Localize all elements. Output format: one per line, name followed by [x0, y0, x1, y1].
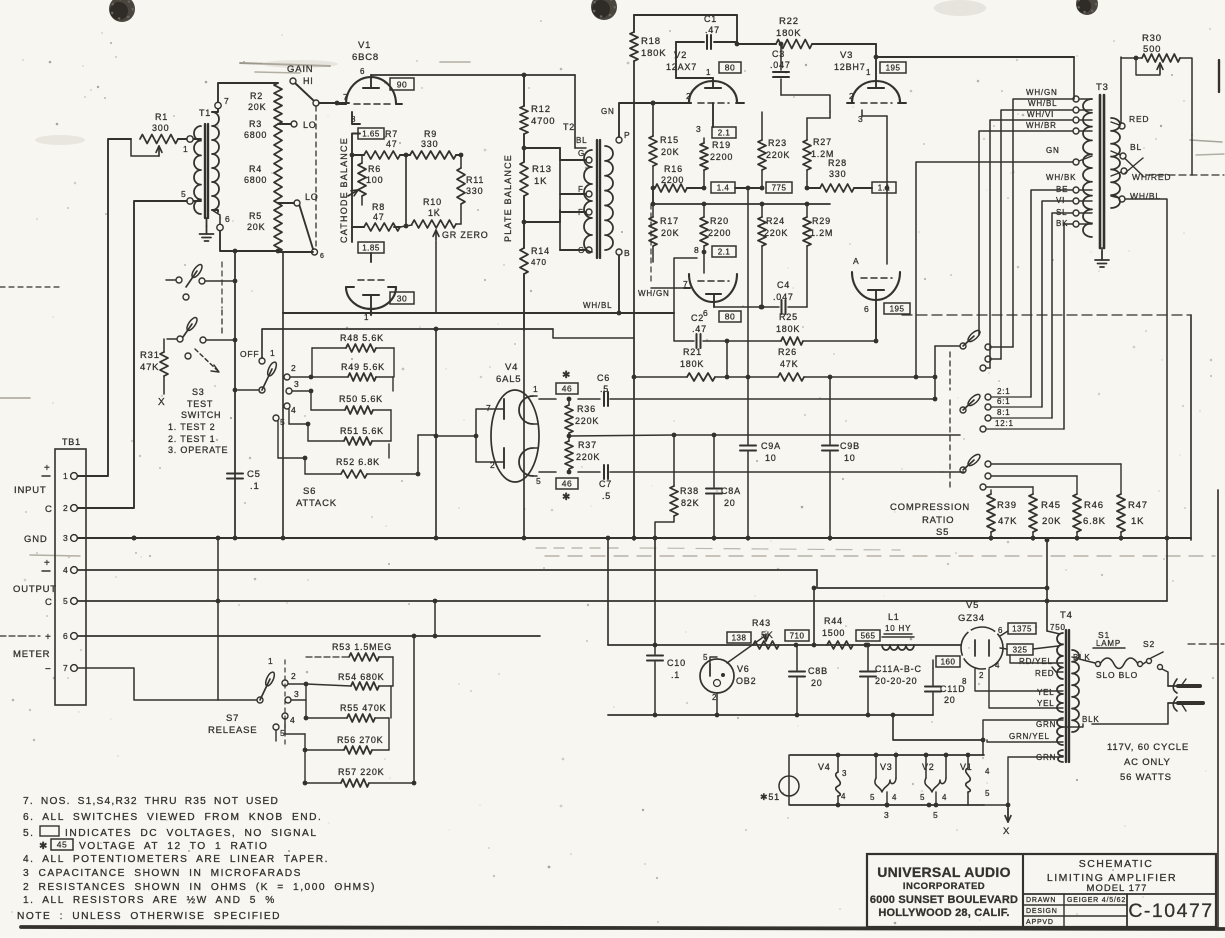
wire [916, 162, 1073, 377]
svg-text:C5: C5 [247, 469, 261, 480]
capacitor C4 .047 [714, 280, 807, 314]
wire [456, 153, 463, 158]
svg-text:R20: R20 [710, 216, 729, 226]
svg-text:1: 1 [63, 471, 69, 481]
svg-text:R45: R45 [1041, 500, 1061, 511]
wire [233, 251, 238, 538]
wire (heater rail bottom) [790, 803, 984, 808]
wire [539, 397, 600, 402]
svg-text:6BC8: 6BC8 [352, 52, 379, 63]
svg-text:R23: R23 [768, 138, 787, 148]
label COMPRESSION RATIO S5 [890, 502, 970, 538]
note text [17, 796, 376, 922]
svg-text:3. OPERATE: 3. OPERATE [168, 445, 228, 455]
svg-text:3: 3 [294, 689, 300, 699]
switch S3 [167, 310, 235, 372]
svg-text:7. NOS. S1,S4,R32 THRU R35 NO: 7. NOS. S1,S4,R32 THRU R35 NOT USED [23, 796, 279, 807]
wire [634, 14, 737, 16]
svg-text:100: 100 [366, 175, 383, 185]
wire [979, 131, 1073, 335]
svg-text:V3: V3 [840, 50, 853, 61]
tube V3 heater [870, 755, 897, 820]
wire [619, 101, 691, 137]
svg-text:5: 5 [536, 476, 542, 486]
capacitor C10 .1 [647, 645, 686, 715]
resistor R7 47 [360, 129, 400, 159]
svg-text:1K: 1K [1131, 516, 1144, 527]
svg-text:R26: R26 [778, 347, 797, 357]
label WH/GN [638, 204, 690, 298]
capacitor C8A 20 [706, 435, 741, 540]
svg-text:V1: V1 [358, 40, 371, 51]
svg-text:1: 1 [270, 348, 276, 358]
svg-text:2:1: 2:1 [997, 387, 1011, 396]
svg-text:RED: RED [1129, 114, 1149, 124]
svg-text:2: 2 [291, 363, 297, 373]
svg-text:PLATE BALANCE: PLATE BALANCE [503, 154, 513, 242]
svg-text:R47: R47 [1128, 500, 1148, 511]
wire [412, 634, 417, 783]
wire [523, 274, 525, 330]
wire [874, 55, 1074, 60]
svg-text:47: 47 [386, 139, 398, 149]
svg-text:4: 4 [995, 661, 1000, 670]
svg-text:20K: 20K [247, 222, 265, 232]
wire [282, 252, 284, 313]
dc voltage 80 (lower) [719, 311, 741, 322]
title block [867, 854, 1216, 927]
svg-text:180K: 180K [776, 28, 801, 39]
wire [77, 538, 1167, 603]
resistor R38 82K [655, 435, 699, 540]
svg-text:8: 8 [694, 245, 700, 255]
resistor R24 220K [758, 202, 788, 310]
svg-text:1500: 1500 [822, 628, 845, 638]
wire [524, 148, 560, 160]
svg-text:MODEL 177: MODEL 177 [1087, 883, 1148, 894]
svg-text:4: 4 [892, 793, 897, 802]
switch S6 [238, 348, 300, 427]
tube V1 heater [960, 755, 990, 805]
svg-text:12BH7: 12BH7 [834, 62, 866, 72]
wire [218, 83, 278, 102]
svg-text:C1: C1 [704, 14, 717, 24]
capacitor C3 .047 [770, 42, 830, 112]
svg-text:HI: HI [303, 76, 314, 86]
dc voltage 1.65 [358, 128, 384, 139]
svg-text:2 RESISTANCES SHOWN IN OHMS (K: 2 RESISTANCES SHOWN IN OHMS (K = 1,000 O… [23, 882, 376, 893]
svg-text:3: 3 [884, 810, 890, 820]
wire [933, 346, 938, 401]
wire [1052, 213, 1073, 418]
svg-text:C7: C7 [599, 479, 612, 489]
capacitor C8B 20 [789, 645, 828, 715]
svg-text:1: 1 [268, 656, 274, 666]
wire [654, 540, 656, 645]
plug P1 [1168, 679, 1203, 711]
resistor R36 220K [565, 399, 599, 436]
node T3 secondary taps [1026, 88, 1092, 134]
label YEL YEL [975, 669, 1063, 708]
svg-text:45: 45 [57, 840, 67, 850]
svg-text:OB2: OB2 [736, 676, 756, 686]
node 5 [181, 189, 193, 204]
wire [178, 138, 187, 140]
svg-text:LO: LO [303, 120, 317, 130]
wire [394, 155, 406, 227]
resistor R53 1.5MEG [306, 642, 393, 661]
tube V1 6BC8 (section 2) [346, 280, 396, 322]
svg-text:.1: .1 [671, 670, 680, 680]
svg-text:20K: 20K [1042, 516, 1061, 527]
tube V5 GZ34 [958, 600, 1008, 686]
svg-text:1. ALL RESISTORS ARE ½W AND 5: 1. ALL RESISTORS ARE ½W AND 5 % [23, 895, 276, 906]
resistor R46 6.8K [1073, 494, 1106, 540]
svg-text:S5: S5 [936, 527, 949, 538]
svg-text:20K: 20K [661, 228, 679, 238]
wire [220, 231, 280, 253]
svg-text:5.: 5. [23, 828, 35, 839]
dc voltage 90 [390, 78, 414, 90]
resistor R17 20K [649, 202, 679, 262]
resistor R3 6800 [244, 119, 282, 208]
wire [672, 433, 960, 438]
resistor R56 270K [285, 718, 389, 754]
svg-text:ATTACK: ATTACK [296, 498, 337, 509]
resistor R27 1.2M [803, 112, 834, 182]
wire (B+ rail) [608, 643, 961, 648]
svg-text:46: 46 [562, 384, 572, 394]
svg-text:47K: 47K [998, 516, 1017, 527]
svg-text:.47: .47 [692, 324, 707, 334]
capacitor C1 .47 [676, 14, 737, 49]
svg-text:R29: R29 [812, 216, 831, 226]
dc voltage 195 (lower) [884, 303, 910, 314]
node WH/BL tap [1111, 191, 1161, 202]
wire [523, 330, 525, 538]
svg-text:47K: 47K [140, 362, 159, 373]
svg-text:1375: 1375 [1012, 625, 1032, 634]
svg-text:4: 4 [63, 565, 69, 575]
ground [200, 218, 214, 241]
wire [77, 139, 131, 476]
svg-text:5: 5 [703, 653, 708, 662]
svg-text:5: 5 [920, 793, 925, 802]
svg-text:1. TEST 2: 1. TEST 2 [168, 422, 215, 432]
svg-text:3 CAPACITANCE SHOWN IN MICROFA: 3 CAPACITANCE SHOWN IN MICROFARADS [23, 868, 302, 879]
svg-text:C8B: C8B [808, 666, 828, 676]
capacitor C2 .47 [674, 258, 781, 379]
transformer T3 [1083, 82, 1120, 248]
label S7 RELEASE [208, 713, 257, 736]
svg-text:775: 775 [772, 184, 787, 193]
svg-text:1.85: 1.85 [362, 244, 380, 253]
dc voltage 2.1 (lower) [694, 245, 736, 257]
label BLK [1073, 653, 1091, 662]
resistor R12 4700 [520, 75, 555, 162]
svg-text:10 HY: 10 HY [885, 624, 911, 633]
svg-text:GN: GN [1046, 146, 1060, 155]
svg-text:R17: R17 [660, 216, 679, 226]
node 1 [183, 136, 193, 154]
resistor R18 180K [630, 15, 666, 61]
svg-text:C: C [45, 597, 53, 608]
tube V6 OB2 [700, 638, 762, 715]
svg-text:300: 300 [152, 123, 169, 133]
svg-text:2. TEST 1: 2. TEST 1 [168, 434, 215, 444]
svg-text:R28: R28 [828, 158, 847, 168]
wire [1064, 224, 1073, 429]
label GN [601, 107, 615, 116]
wire [278, 251, 313, 253]
resistor R28 330 [805, 158, 872, 192]
svg-text:TB1: TB1 [62, 437, 81, 447]
transformer T1 [193, 108, 219, 218]
svg-text:R30: R30 [1142, 33, 1162, 44]
svg-text:7: 7 [343, 92, 349, 102]
svg-text:R51 5.6K: R51 5.6K [340, 426, 384, 436]
svg-text:R7: R7 [385, 129, 398, 139]
ground [1095, 248, 1109, 267]
svg-text:117V, 60 CYCLE: 117V, 60 CYCLE [1107, 742, 1189, 753]
resistor R51 5.6K [289, 409, 391, 445]
wire [77, 536, 257, 700]
wire [350, 153, 358, 227]
resistor R2 20K [248, 83, 282, 124]
svg-text:R3: R3 [249, 119, 262, 129]
svg-text:20-20-20: 20-20-20 [875, 676, 917, 686]
svg-text:R53 1.5MEG: R53 1.5MEG [332, 642, 392, 652]
resistor R19 2200 [700, 138, 733, 188]
svg-text:20: 20 [811, 678, 823, 688]
svg-text:R37: R37 [578, 440, 597, 450]
svg-text:6: 6 [360, 67, 365, 76]
wire [812, 586, 817, 645]
svg-text:WH/RED: WH/RED [1132, 172, 1171, 182]
svg-text:5: 5 [985, 789, 990, 798]
svg-text:YEL: YEL [1037, 699, 1055, 708]
potentiometer R10 1K [400, 197, 456, 240]
resistor R55 470K [291, 684, 391, 722]
capacitor C5 .1 [227, 469, 261, 492]
svg-text:3: 3 [842, 769, 847, 778]
capacitor C9A 10 [740, 186, 781, 540]
label CATHODE BALANCE [339, 137, 349, 243]
svg-text:R15: R15 [660, 135, 679, 145]
dc voltage 2.1 [712, 127, 736, 138]
svg-text:6: 6 [225, 214, 231, 224]
wire [371, 73, 575, 78]
wire (heater rail top) [790, 753, 984, 758]
svg-text:RD/YEL: RD/YEL [1019, 657, 1053, 666]
svg-text:TEST: TEST [187, 399, 213, 409]
svg-text:R11: R11 [466, 175, 484, 185]
resistor R48 5.6K [312, 333, 394, 352]
svg-text:195: 195 [886, 64, 901, 73]
wire [262, 329, 634, 358]
svg-text:R14: R14 [531, 246, 550, 256]
wire [653, 188, 830, 204]
dc voltage 80 [719, 62, 741, 73]
svg-text:20K: 20K [661, 147, 679, 157]
svg-text:R22: R22 [779, 16, 799, 27]
resistor R45 20K [1029, 494, 1061, 540]
svg-text:R48 5.6K: R48 5.6K [340, 333, 384, 343]
svg-text:WH/BL: WH/BL [583, 301, 612, 310]
wire [1125, 158, 1144, 176]
svg-text:S6: S6 [303, 486, 316, 497]
wire [981, 738, 1011, 808]
wire (gnd bus) [77, 536, 1191, 541]
svg-text:A: A [853, 256, 859, 266]
svg-text:✱: ✱ [562, 370, 571, 381]
node T3 primary lower taps [1056, 185, 1092, 228]
inductor L1 10 HY [882, 612, 914, 650]
transformer T4 [1057, 630, 1079, 762]
svg-text:R8: R8 [372, 202, 385, 212]
svg-text:GAIN: GAIN [287, 64, 313, 75]
resistor R25 180K [776, 312, 878, 345]
svg-text:6. ALL SWITCHES VIEWED FROM KN: 6. ALL SWITCHES VIEWED FROM KNOB END. [23, 812, 322, 823]
svg-text:2: 2 [686, 91, 692, 101]
svg-text:12:1: 12:1 [995, 419, 1014, 428]
svg-text:R56 270K: R56 270K [337, 735, 383, 745]
svg-text:195: 195 [890, 305, 905, 314]
tube V2 12AX7 (section 1) [666, 50, 744, 134]
svg-text:80: 80 [725, 63, 735, 73]
svg-text:R6: R6 [368, 164, 381, 174]
switch S7 [257, 656, 300, 745]
svg-text:3: 3 [294, 379, 300, 389]
label WH/BL [583, 301, 612, 310]
fuse SLO BLO [1072, 657, 1143, 680]
svg-text:SCHEMATIC: SCHEMATIC [1079, 858, 1154, 870]
svg-text:6800: 6800 [244, 175, 267, 185]
label GRN GRN/YEL [983, 720, 1063, 742]
svg-text:5: 5 [63, 596, 69, 606]
wire [1146, 135, 1224, 175]
svg-text:90: 90 [397, 80, 407, 90]
wire [351, 227, 353, 242]
svg-text:325: 325 [1013, 646, 1028, 655]
svg-text:1: 1 [706, 68, 711, 77]
wire [1120, 57, 1122, 124]
wire [77, 201, 187, 508]
svg-text:R2: R2 [250, 91, 263, 101]
wire [1031, 190, 1073, 397]
svg-text:R9: R9 [424, 129, 437, 139]
svg-text:6800: 6800 [244, 130, 267, 140]
svg-text:RED: RED [1035, 669, 1054, 678]
svg-text:+: + [44, 463, 51, 474]
wire [1073, 57, 1075, 99]
svg-text:1: 1 [866, 68, 871, 77]
svg-text:R10: R10 [423, 197, 442, 207]
svg-text:✱: ✱ [562, 492, 571, 503]
svg-text:1.2M: 1.2M [810, 228, 833, 238]
resistor R21 180K [632, 347, 748, 381]
dc voltage 46 (pin1) [556, 370, 578, 394]
svg-text:T4: T4 [1060, 610, 1073, 621]
svg-text:.5: .5 [602, 491, 611, 501]
resistor R44 1500 [822, 616, 853, 649]
label PLATE BALANCE [503, 154, 513, 242]
resistor R16 2200 [651, 164, 707, 192]
lamp *51 [760, 755, 799, 805]
potentiometer R30 500 [1121, 33, 1192, 135]
wire (psu common) [608, 713, 983, 740]
svg-text:UNIVERSAL AUDIO: UNIVERSAL AUDIO [877, 864, 1011, 880]
svg-text:C8A: C8A [721, 486, 741, 496]
svg-text:X: X [158, 397, 165, 408]
svg-text:INCORPORATED: INCORPORATED [903, 881, 985, 892]
svg-text:V6: V6 [737, 664, 750, 674]
svg-text:2.1: 2.1 [718, 129, 731, 138]
svg-text:R54 680K: R54 680K [338, 672, 384, 682]
tube V2 12AX7 (section 2) [683, 252, 737, 318]
svg-text:R38: R38 [680, 486, 699, 496]
svg-text:V3: V3 [880, 762, 893, 772]
svg-text:X: X [1003, 826, 1010, 837]
svg-text:WH/GN: WH/GN [1026, 88, 1058, 97]
svg-text:WH/BR: WH/BR [1026, 121, 1057, 130]
svg-text:220K: 220K [766, 150, 790, 160]
svg-text:20: 20 [944, 695, 956, 705]
wire [335, 101, 349, 106]
svg-text:C-10477: C-10477 [1128, 900, 1213, 922]
svg-text:180K: 180K [776, 324, 800, 334]
svg-text:C6: C6 [597, 373, 610, 383]
svg-text:20K: 20K [248, 102, 266, 112]
svg-text:4: 4 [942, 793, 947, 802]
resistor R15 20K [649, 101, 679, 166]
wire (output bus) [77, 570, 1047, 588]
wire [1045, 538, 1050, 631]
wire [1001, 110, 1073, 359]
wire [352, 134, 360, 156]
svg-text:GND: GND [24, 534, 48, 545]
node WH/RED tap [1111, 168, 1171, 182]
svg-text:YEL: YEL [1037, 688, 1055, 697]
svg-text:2200: 2200 [708, 228, 731, 238]
svg-text:R50 5.6K: R50 5.6K [339, 394, 383, 404]
svg-text:4: 4 [290, 715, 296, 725]
svg-text:R57 220K: R57 220K [338, 767, 384, 777]
node 7 [215, 96, 230, 109]
dc voltage 46 (pin5) [556, 478, 578, 503]
svg-text:GRN/YEL: GRN/YEL [1009, 732, 1050, 741]
resistor R50 5.6K [292, 377, 393, 414]
resistor R4 6800 [244, 164, 267, 185]
dc voltage 1.1 [872, 182, 896, 193]
svg-text:220K: 220K [575, 416, 599, 426]
resistor R52 6.8K [278, 421, 420, 478]
svg-text:CATHODE BALANCE: CATHODE BALANCE [339, 137, 349, 243]
svg-text:C9A: C9A [761, 441, 781, 451]
svg-text:V2: V2 [674, 50, 687, 61]
wire [524, 210, 560, 222]
svg-text:1K: 1K [428, 208, 441, 218]
label GRN [1008, 753, 1063, 822]
wire (meter bus) [20, 635, 540, 637]
capacitor C6 .5 [597, 373, 935, 406]
svg-text:P: P [624, 130, 630, 140]
resistor R5 20K [247, 208, 282, 252]
tube V1 6BC8 (section 1) [339, 40, 402, 124]
svg-text:46: 46 [562, 479, 572, 489]
svg-text:G: G [578, 149, 585, 158]
svg-text:2.1: 2.1 [718, 248, 731, 257]
